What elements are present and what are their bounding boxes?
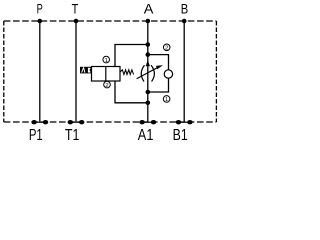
svg-text:B1: B1 (173, 127, 188, 141)
wire T line (75, 21, 77, 122)
svg-text:P: P (37, 0, 43, 17)
svg-text:1: 1 (165, 97, 168, 103)
node B top junction (182, 19, 187, 24)
node A top junction (146, 19, 151, 24)
svg-text:A1: A1 (138, 127, 154, 141)
solenoid actuator of V1 (80, 67, 91, 74)
node junction valve-loop bottom on A line (146, 101, 151, 106)
wire solenoid-valve loop top (115, 45, 148, 67)
manifold enclosure (dashed boundary) (4, 21, 217, 122)
pin label 1 (circled) at V1 top port (103, 56, 110, 64)
svg-text:P1: P1 (29, 125, 43, 141)
port A1 symbol (139, 120, 156, 124)
svg-text:T: T (72, 1, 79, 17)
spring of V1 (120, 70, 133, 75)
throttle valve FC1 flow arrow (up) (146, 60, 150, 66)
svg-text:B: B (181, 1, 188, 16)
wire A line (147, 21, 149, 122)
check valve CV1 (ball) (164, 70, 172, 78)
wire check-valve loop bottom (148, 78, 169, 92)
throttle valve FC1 adjustment arrow (diagonal) (137, 65, 163, 79)
svg-text:1: 1 (105, 58, 108, 64)
svg-text:T1: T1 (65, 127, 80, 141)
svg-text:A: A (144, 1, 154, 17)
port B1 symbol (176, 120, 193, 124)
svg-text:2: 2 (105, 83, 108, 89)
node junction valve-loop top on A line (146, 42, 151, 47)
pin label 1 (circled) at check branch bottom (163, 96, 170, 104)
pin label 2 (circled) at check branch top (163, 44, 170, 52)
wire P line (39, 21, 41, 122)
node junction check-loop top on A line (146, 52, 151, 57)
svg-text:2: 2 (165, 46, 168, 52)
throttle valve FC1 venturi arcs (141, 65, 154, 81)
node P top junction (38, 19, 43, 24)
node T top junction (74, 19, 79, 24)
solenoid valve V1 body (2-position) (92, 67, 121, 82)
pin label 2 (circled) at V1 bottom port (104, 81, 111, 89)
wire check-valve loop top (148, 55, 169, 70)
wire B line (183, 21, 185, 122)
node junction check-loop bottom on A line (146, 90, 151, 95)
port T1 symbol (68, 120, 85, 124)
port P1 symbol (31, 120, 48, 124)
wire solenoid-valve loop bottom (115, 81, 148, 103)
